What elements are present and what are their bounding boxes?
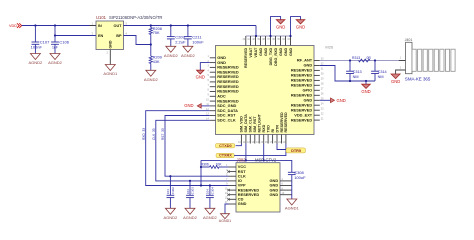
node junction C314: [374, 59, 376, 61]
capacitor C106: [51, 36, 70, 54]
pin 5 left RESERVED: [207, 74, 238, 79]
pin 36 top DBG_RXD: [272, 36, 278, 66]
pin 7 left RESERVED: [207, 84, 238, 89]
ground AGND2 under C107: [30, 54, 40, 60]
pin 33 top GND: [287, 36, 293, 56]
svg-text:1uF: 1uF: [52, 45, 58, 49]
pin 3 left RESERVED: [207, 65, 238, 70]
svg-text:GND: GND: [276, 24, 285, 29]
pin bottom SIM_RST: [252, 116, 258, 144]
pin bottom RESERVED: [283, 112, 289, 144]
svg-text:AGND2: AGND2: [164, 53, 179, 58]
connector J401 SMA: [405, 38, 456, 82]
svg-text:CLK_33: CLK_33: [152, 128, 156, 140]
svg-text:SIP21106DNP-A3/30/NO/TR: SIP21106DNP-A3/30/NO/TR: [109, 15, 162, 20]
wire RXD pin to bus A: [263, 144, 265, 161]
pin 34 top GND: [282, 36, 288, 56]
pin right RESERVED: [291, 107, 324, 112]
pin bottom TXD: [265, 125, 271, 144]
net tag CTXD0: [215, 144, 234, 148]
power port GND right arrow: [320, 98, 346, 103]
ground AGND2 under R209: [146, 70, 156, 76]
svg-text:RI: RI: [271, 129, 275, 133]
pin bottom SIM_CLK: [247, 116, 253, 144]
pin 37 top DBG_TXD: [267, 36, 273, 65]
pin 14 left SDC_CLK: [206, 118, 236, 123]
pin 11 left SDC_GND: [206, 103, 236, 108]
svg-text:GND: GND: [296, 24, 305, 29]
wire SDC_RST: [165, 116, 229, 177]
pin 2 left GND: [207, 60, 226, 65]
pin bottom NETLIGHT: [256, 113, 262, 143]
svg-text:MSP-CTV2: MSP-CTV2: [255, 157, 277, 162]
pin 13 left SDC_RST: [206, 113, 236, 118]
ground GND antenna caps: [362, 84, 371, 88]
svg-text:GND: GND: [284, 47, 288, 56]
ground AGND2 under C303: [185, 208, 195, 214]
wire SDC_DATA: [146, 111, 229, 186]
svg-text:RESERVED: RESERVED: [244, 47, 248, 68]
node junction divider top: [150, 24, 152, 26]
svg-text:GND: GND: [109, 40, 113, 48]
pin 35 top GND: [277, 36, 283, 56]
svg-text:AGND2: AGND2: [48, 60, 63, 65]
pin 6 left RESERVED: [207, 79, 238, 84]
net tag CTXRX: [216, 153, 234, 157]
svg-text:GND: GND: [361, 89, 370, 94]
wire VBAT feed: [255, 26, 257, 37]
ground AGND1 right bus: [287, 199, 297, 205]
svg-text:U101: U101: [96, 15, 107, 20]
pin 12 left SDC_DATA: [206, 108, 238, 113]
power port VDD: [9, 23, 22, 28]
resistor R306 pull-up: [201, 162, 229, 168]
node junction GND2: [289, 35, 291, 37]
wire divider bottom: [150, 64, 152, 71]
svg-text:VBAT: VBAT: [249, 47, 253, 58]
ground AGND1 under U101: [105, 65, 115, 71]
svg-text:C302: C302: [171, 187, 175, 195]
pin J302 right GND: [270, 183, 292, 188]
node junction C106/EN: [54, 24, 56, 26]
svg-text:RXD: RXD: [262, 124, 266, 132]
pin 1 left GND: [207, 55, 226, 60]
node junction C313: [349, 59, 351, 61]
svg-text:DTR: DTR: [275, 125, 279, 133]
svg-text:104: 104: [166, 189, 170, 194]
node junction C302: [169, 175, 171, 177]
svg-text:M26: M26: [325, 44, 334, 49]
capacitor C209: [167, 26, 186, 47]
svg-text:R313: R313: [352, 56, 360, 60]
svg-text:AGND2: AGND2: [181, 53, 196, 58]
pin J302 left VPP: [226, 183, 246, 188]
pin J302 left GND: [225, 201, 247, 206]
svg-text:C106: C106: [59, 39, 69, 44]
ground AGND1 under J302: [221, 214, 230, 219]
pin bottom RESERVED: [278, 112, 284, 144]
svg-text:DBG_TXD: DBG_TXD: [269, 47, 273, 65]
svg-text:AGND2: AGND2: [203, 215, 218, 220]
pin J302 left VCC: [226, 164, 246, 169]
svg-text:AGND1: AGND1: [285, 206, 300, 211]
svg-text:2.2uF: 2.2uF: [175, 39, 186, 44]
wire VBAT bus: [246, 35, 291, 37]
node junction R306 tap: [200, 166, 202, 168]
svg-text:BP: BP: [116, 34, 122, 38]
svg-text:OUT: OUT: [113, 24, 122, 28]
svg-text:GND: GND: [289, 47, 293, 56]
svg-text:AGND2: AGND2: [164, 215, 179, 220]
pin right RF_ANT: [297, 58, 324, 63]
wire CTXD0 to SIM_VDD: [236, 144, 242, 146]
node junction C304: [209, 184, 211, 186]
pin right RESERVED: [291, 102, 324, 107]
wire gnd stem: [365, 81, 367, 84]
svg-text:GND: GND: [264, 47, 268, 56]
wire GND return: [320, 66, 375, 82]
svg-text:104: 104: [186, 189, 190, 194]
node junction VBAT feed: [255, 35, 257, 37]
svg-text:C314: C314: [378, 70, 387, 74]
svg-text:GND: GND: [184, 103, 193, 108]
node junction C107: [34, 24, 36, 26]
pin 41 top VBAT: [247, 36, 253, 58]
svg-text:RESERVED: RESERVED: [284, 112, 288, 133]
pin 40 top VBAT: [252, 36, 258, 58]
svg-text:RST_33: RST_33: [161, 128, 165, 140]
pin right RESERVED: [291, 68, 324, 73]
svg-text:TXD: TXD: [266, 125, 270, 133]
svg-text:CTXD0: CTXD0: [219, 144, 231, 148]
wire GND elbow left pin 2: [200, 63, 210, 71]
svg-text:GND: GND: [270, 192, 279, 197]
wire SDC_CLK: [156, 120, 229, 181]
capacitor C313: [346, 61, 362, 82]
svg-text:AGND2: AGND2: [29, 60, 44, 65]
svg-text:104: 104: [206, 189, 210, 194]
pin right RESERVED: [291, 83, 324, 88]
pin bottom RI: [269, 129, 275, 144]
capacitor C314: [371, 61, 387, 82]
pin J302 left RESERVED: [225, 192, 259, 197]
pin 10 left RESERVED: [206, 98, 239, 103]
pin J302 right GND: [270, 192, 292, 197]
pin J302 left IO: [226, 178, 242, 183]
no-connect crosses J302: [227, 170, 229, 172]
module U301 M26 body: [216, 46, 315, 135]
pin 9 left ADC: [207, 94, 225, 99]
pin J302 right GND: [270, 187, 292, 192]
svg-text:DTR5: DTR5: [291, 149, 301, 153]
svg-text:AGND1: AGND1: [219, 219, 231, 223]
wire bus A above J302: [201, 160, 292, 172]
node junction RXD feed: [263, 159, 265, 161]
ground AGND2 under C209: [166, 46, 176, 52]
pin bottom SIM_VDD: [238, 116, 244, 144]
pin right GND: [304, 98, 325, 103]
node junction C209: [170, 24, 172, 26]
svg-text:75K: 75K: [153, 31, 160, 35]
resistor R313: [352, 56, 371, 62]
svg-text:C304: C304: [210, 187, 214, 195]
ground GND under SMA: [391, 74, 400, 79]
svg-text:DBG_RXD: DBG_RXD: [274, 47, 278, 65]
svg-text:CTXRX: CTXRX: [219, 154, 232, 158]
ground AGND2 under C302: [165, 208, 175, 214]
svg-text:SIM_RST: SIM_RST: [253, 116, 257, 133]
capacitor C107: [31, 26, 51, 54]
svg-text:GND: GND: [259, 47, 263, 56]
pin 39 top GND: [257, 36, 263, 56]
svg-text:C303: C303: [190, 187, 194, 195]
node junction gnd stem: [365, 80, 367, 82]
svg-text:NM: NM: [353, 75, 359, 79]
svg-text:0R: 0R: [367, 56, 372, 60]
wire J302 ground: [225, 204, 229, 214]
pin right RESERVED: [291, 78, 324, 83]
svg-text:EN: EN: [98, 34, 104, 38]
pin 8 left RESERVED: [207, 89, 238, 94]
svg-text:VDD: VDD: [9, 24, 17, 28]
svg-text:NM: NM: [378, 75, 384, 79]
capacitor C302: [166, 176, 175, 208]
svg-text:J302: J302: [237, 157, 247, 162]
pin 42 top RESERVED: [243, 36, 249, 68]
capacitor C211: [184, 26, 204, 47]
pin 38 top GND: [262, 36, 268, 56]
power port GND left arrow: [184, 103, 210, 108]
svg-text:GND: GND: [196, 74, 205, 79]
pin J302 left RESERVED: [225, 187, 259, 192]
ground GND left pin 2: [197, 70, 205, 74]
svg-text:C313: C313: [353, 70, 362, 74]
pin 4 left RESERVED: [207, 69, 238, 74]
svg-text:AGND1: AGND1: [103, 71, 118, 76]
svg-text:GND: GND: [337, 98, 346, 103]
svg-text:GND: GND: [279, 47, 283, 56]
node junction GND1: [269, 35, 271, 37]
pin right VDD_EXT: [294, 112, 324, 117]
svg-text:GND: GND: [391, 79, 400, 84]
regulator U101: [92, 15, 163, 55]
wire RESERVED to DTR5: [277, 144, 286, 150]
svg-text:AGND2: AGND2: [144, 77, 159, 82]
node junction C211: [187, 24, 189, 26]
pin bottom DTR: [274, 125, 280, 144]
wire BP to divider: [124, 36, 151, 45]
pin right GND: [304, 63, 325, 68]
pin bottom RXD: [260, 124, 266, 143]
svg-text:R306: R306: [201, 162, 209, 166]
pin right GPIO: [302, 88, 324, 93]
svg-text:100nF: 100nF: [31, 44, 43, 49]
node junction SIM_DATA feed: [245, 159, 247, 161]
svg-text:10K: 10K: [216, 162, 223, 166]
capacitor C304: [206, 186, 215, 209]
resistor R208: [149, 26, 162, 36]
svg-text:VBAT: VBAT: [254, 47, 258, 58]
svg-text:SIM_CLK: SIM_CLK: [249, 116, 253, 133]
wire to GND symbol 1: [271, 17, 281, 36]
wire divider middle: [150, 35, 152, 57]
svg-text:J401: J401: [405, 38, 413, 42]
node junction cap bottoms: [349, 80, 351, 82]
svg-text:43K: 43K: [153, 60, 160, 64]
pin right RESERVED: [291, 117, 324, 122]
capacitor C308: [288, 170, 306, 199]
ground AGND2 under C106: [50, 54, 60, 60]
wire vertical bus A left: [200, 160, 202, 185]
capacitor C303: [186, 181, 195, 208]
node junction BP tap: [150, 43, 152, 45]
svg-text:SMA-KE 365: SMA-KE 365: [405, 77, 431, 82]
pin bottom SIM_DATA: [243, 114, 248, 144]
svg-text:GND: GND: [238, 201, 247, 206]
wire OUT rail: [124, 25, 257, 27]
svg-text:RESERVED: RESERVED: [291, 117, 313, 122]
wire RF_ANT: [320, 60, 406, 62]
pin stub U101 IN: [90, 25, 97, 27]
pin J302 right GND: [270, 178, 292, 183]
wire CTXRX to pin RESERVED: [234, 144, 286, 156]
ground GND top 1: [276, 20, 285, 24]
svg-text:SIM_DATA: SIM_DATA: [244, 114, 248, 133]
wire to GND symbol 2: [291, 17, 301, 36]
pin J302 left CLK: [226, 173, 246, 178]
net tag DTR5: [286, 148, 306, 153]
node junction bus A to SDC_DATA: [200, 184, 202, 186]
wire VDD rail: [22, 25, 96, 27]
svg-text:IN: IN: [98, 24, 102, 28]
node junction C303: [189, 180, 191, 182]
pin right RESERVED: [291, 73, 324, 78]
svg-text:NETLIGHT: NETLIGHT: [258, 113, 262, 132]
ground GND top 2: [296, 20, 305, 24]
pin right RESERVED: [291, 93, 324, 98]
wire SIM_DATA pin to bus A: [245, 144, 247, 161]
svg-text:SIM_VDD: SIM_VDD: [240, 116, 244, 133]
svg-text:RXD_33: RXD_33: [142, 128, 146, 140]
svg-text:100uF: 100uF: [294, 175, 306, 180]
pin 1 SMA signal: [399, 57, 406, 61]
svg-text:SDC_CLK: SDC_CLK: [217, 118, 236, 123]
resistor R209: [149, 56, 162, 64]
pin stub U101 GND: [109, 50, 111, 65]
connector J302 body: [236, 163, 280, 212]
pin J302 left CD: [225, 197, 244, 202]
svg-text:100nF: 100nF: [192, 39, 204, 44]
pin J302 left RST: [226, 169, 246, 174]
node junction EN: [54, 34, 56, 36]
svg-text:AGND2: AGND2: [183, 215, 198, 220]
pin 2 SMA ground: [396, 67, 406, 74]
ground AGND2 under C211: [183, 46, 193, 52]
ground AGND2 under C304: [205, 208, 215, 214]
svg-text:RESERVED: RESERVED: [280, 112, 284, 133]
wire EN branch: [55, 26, 96, 36]
